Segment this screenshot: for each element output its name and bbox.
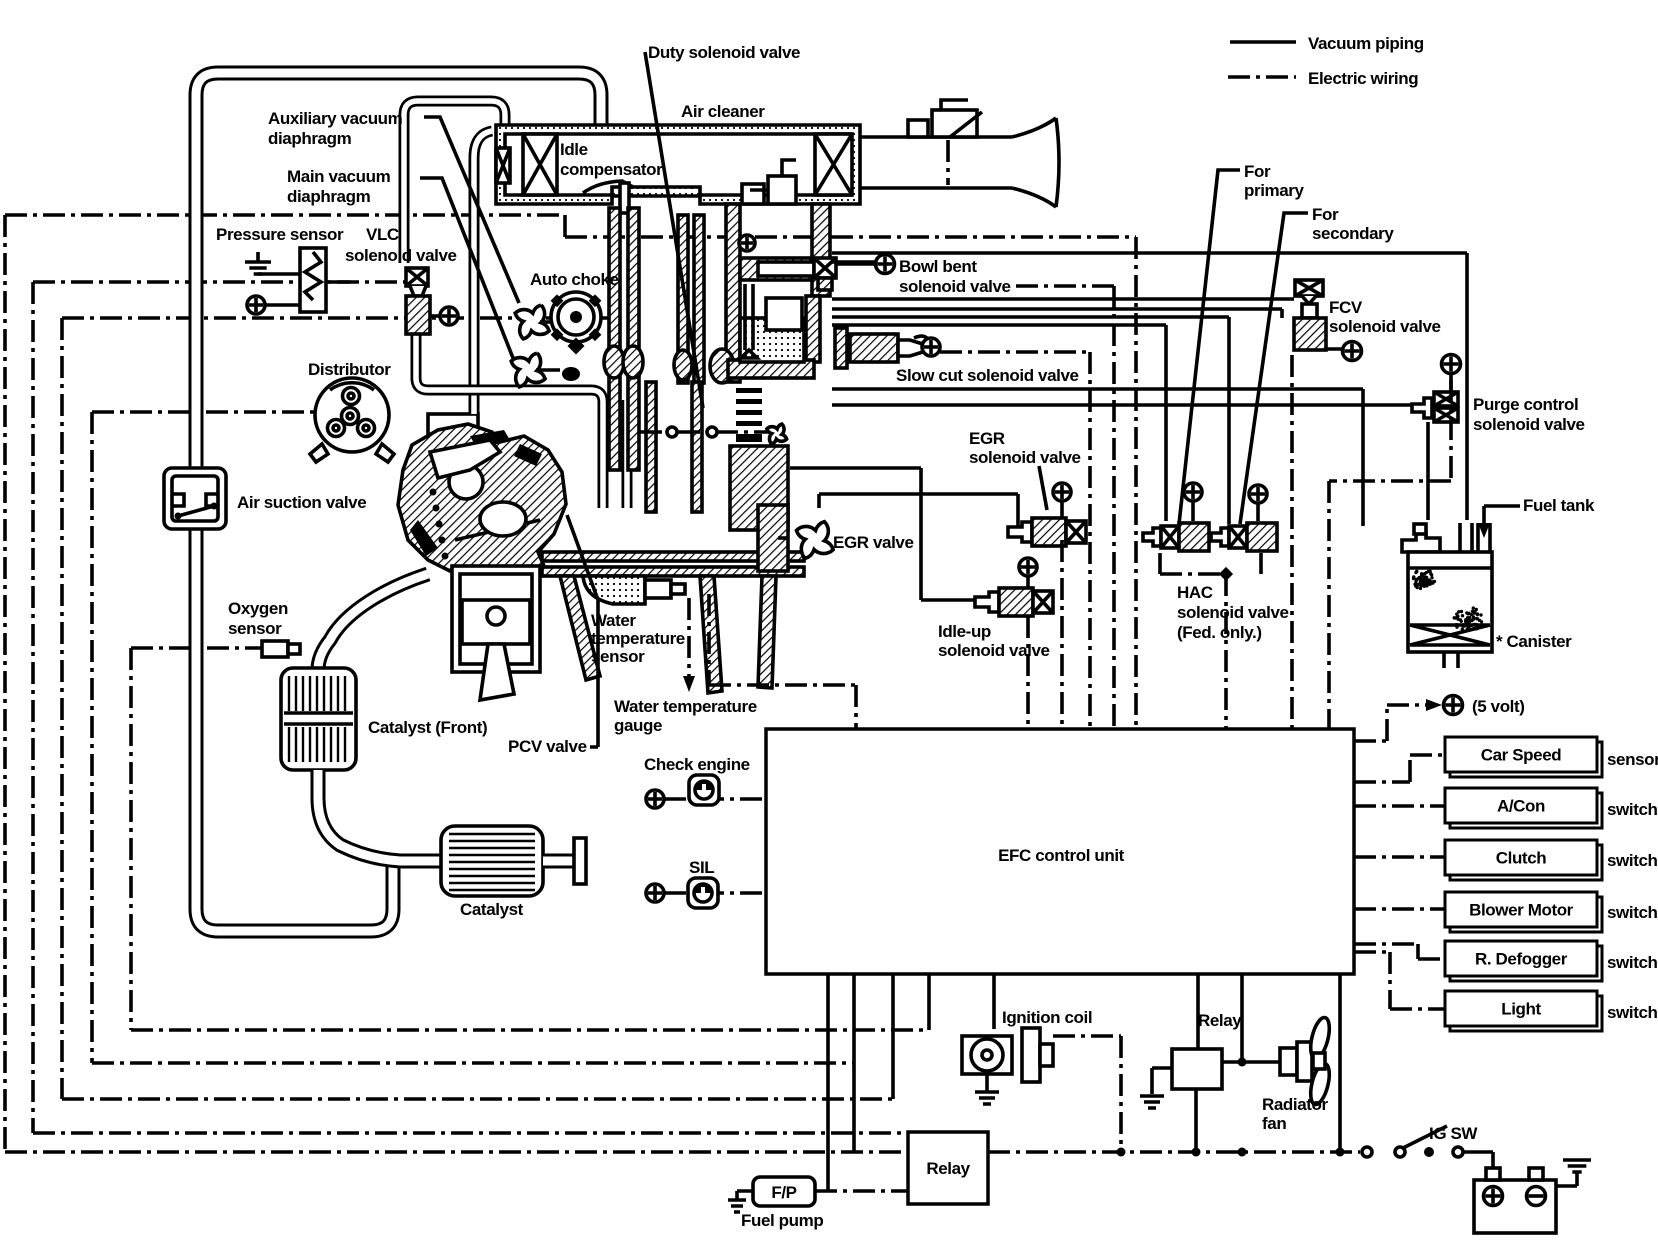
svg-text:Radiator: Radiator bbox=[1262, 1095, 1329, 1114]
svg-text:Auxiliary vacuum: Auxiliary vacuum bbox=[268, 109, 403, 128]
svg-text:Blower Motor: Blower Motor bbox=[1469, 901, 1574, 920]
svg-text:solenoid valve: solenoid valve bbox=[1329, 317, 1441, 336]
svg-text:(Fed. only.): (Fed. only.) bbox=[1177, 623, 1262, 642]
svg-text:VLC: VLC bbox=[366, 225, 399, 244]
svg-text:switch: switch bbox=[1607, 851, 1658, 870]
svg-text:diaphragm: diaphragm bbox=[268, 129, 352, 148]
svg-text:R. Defogger: R. Defogger bbox=[1475, 950, 1568, 969]
svg-text:Electric wiring: Electric wiring bbox=[1308, 69, 1418, 88]
svg-text:sensor: sensor bbox=[228, 619, 282, 638]
svg-text:Car Speed: Car Speed bbox=[1481, 746, 1562, 765]
svg-text:EFC control unit: EFC control unit bbox=[998, 846, 1125, 865]
svg-text:Idle: Idle bbox=[560, 140, 588, 159]
svg-text:Auto choke: Auto choke bbox=[530, 270, 619, 289]
svg-text:Duty solenoid valve: Duty solenoid valve bbox=[648, 43, 800, 62]
svg-text:Water: Water bbox=[591, 611, 636, 630]
svg-text:FCV: FCV bbox=[1329, 298, 1363, 317]
svg-text:Catalyst: Catalyst bbox=[460, 900, 524, 919]
svg-text:primary: primary bbox=[1244, 181, 1305, 200]
svg-text:switch: switch bbox=[1607, 953, 1658, 972]
svg-text:IG SW: IG SW bbox=[1429, 1124, 1478, 1143]
svg-text:switch: switch bbox=[1607, 903, 1658, 922]
svg-text:Relay: Relay bbox=[926, 1159, 970, 1178]
svg-text:switch: switch bbox=[1607, 1003, 1658, 1022]
svg-text:solenoid valve: solenoid valve bbox=[938, 641, 1050, 660]
svg-text:Light: Light bbox=[1501, 1000, 1541, 1019]
svg-text:gauge: gauge bbox=[614, 716, 662, 735]
svg-text:sensor: sensor bbox=[591, 647, 645, 666]
svg-text:HAC: HAC bbox=[1177, 583, 1213, 602]
svg-text:Fuel pump: Fuel pump bbox=[741, 1211, 823, 1230]
svg-text:Oxygen: Oxygen bbox=[228, 599, 288, 618]
svg-text:Fuel tank: Fuel tank bbox=[1523, 496, 1595, 515]
svg-text:Water temperature: Water temperature bbox=[614, 697, 757, 716]
svg-text:Slow cut solenoid valve: Slow cut solenoid valve bbox=[896, 366, 1079, 385]
svg-text:EGR: EGR bbox=[969, 429, 1005, 448]
svg-text:solenoid valve: solenoid valve bbox=[1177, 603, 1289, 622]
svg-text:Purge control: Purge control bbox=[1473, 395, 1578, 414]
svg-text:Air cleaner: Air cleaner bbox=[681, 102, 765, 121]
svg-text:switch: switch bbox=[1607, 800, 1658, 819]
svg-text:Catalyst (Front): Catalyst (Front) bbox=[368, 718, 487, 737]
svg-text:EGR valve: EGR valve bbox=[833, 533, 914, 552]
svg-text:Clutch: Clutch bbox=[1496, 849, 1547, 868]
svg-text:Vacuum piping: Vacuum piping bbox=[1308, 34, 1424, 53]
svg-text:solenoid valve: solenoid valve bbox=[899, 277, 1011, 296]
svg-text:PCV valve: PCV valve bbox=[508, 737, 587, 756]
svg-text:For: For bbox=[1244, 162, 1271, 181]
svg-text:solenoid valve: solenoid valve bbox=[969, 448, 1081, 467]
svg-text:Bowl bent: Bowl bent bbox=[899, 257, 977, 276]
svg-text:Ignition coil: Ignition coil bbox=[1002, 1008, 1092, 1027]
svg-text:secondary: secondary bbox=[1312, 224, 1394, 243]
svg-text:* Canister: * Canister bbox=[1496, 632, 1572, 651]
svg-text:(5 volt): (5 volt) bbox=[1472, 697, 1525, 716]
svg-text:Main vacuum: Main vacuum bbox=[287, 167, 391, 186]
svg-text:sensor: sensor bbox=[1607, 750, 1658, 769]
svg-text:For: For bbox=[1312, 205, 1339, 224]
svg-text:solenoid valve: solenoid valve bbox=[1473, 415, 1585, 434]
svg-text:Check engine: Check engine bbox=[644, 755, 750, 774]
svg-text:diaphragm: diaphragm bbox=[287, 187, 371, 206]
svg-text:F/P: F/P bbox=[771, 1183, 796, 1202]
svg-text:temperature: temperature bbox=[591, 629, 685, 648]
svg-text:Air suction valve: Air suction valve bbox=[237, 493, 366, 512]
svg-text:compensator: compensator bbox=[560, 160, 663, 179]
svg-text:Idle-up: Idle-up bbox=[938, 622, 991, 641]
svg-text:solenoid valve: solenoid valve bbox=[345, 246, 457, 265]
svg-text:Relay: Relay bbox=[1198, 1011, 1242, 1030]
svg-text:Distributor: Distributor bbox=[308, 360, 391, 379]
svg-text:SIL: SIL bbox=[689, 858, 714, 877]
svg-text:Pressure sensor: Pressure sensor bbox=[216, 225, 344, 244]
svg-text:A/Con: A/Con bbox=[1497, 797, 1545, 816]
svg-text:fan: fan bbox=[1262, 1114, 1286, 1133]
